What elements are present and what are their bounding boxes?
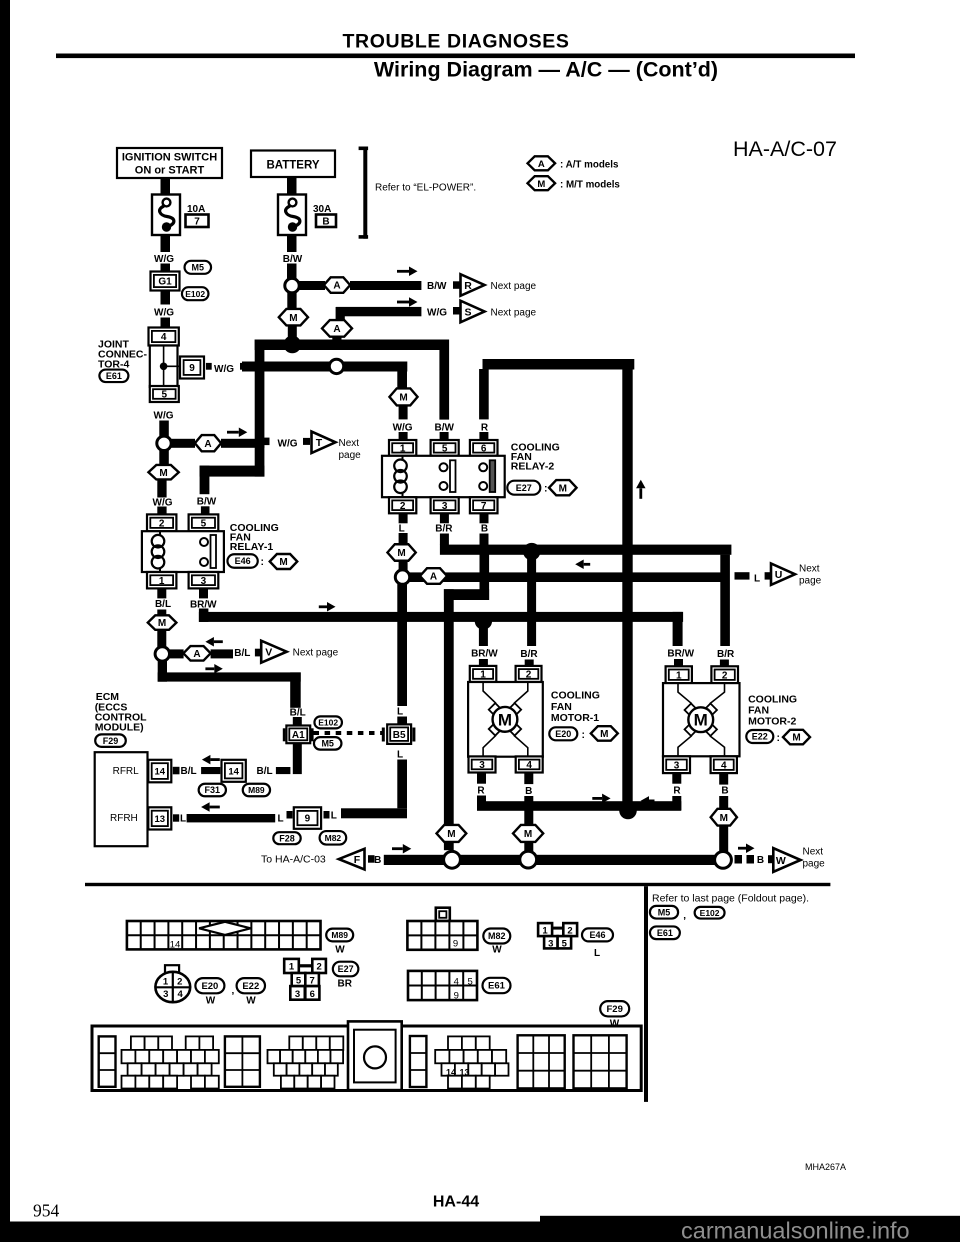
fuse number box B bbox=[316, 215, 336, 228]
svg-text::: : bbox=[777, 732, 781, 744]
arrow left RFRH bbox=[201, 802, 220, 812]
svg-text:,: , bbox=[683, 911, 686, 922]
svg-text:W/G: W/G bbox=[154, 254, 174, 265]
svg-text:4: 4 bbox=[721, 760, 727, 771]
connector B5 bbox=[382, 724, 416, 744]
text Next page (T) bbox=[339, 438, 362, 461]
dash square B/W R bbox=[453, 281, 460, 289]
wire B/R horizontal bbox=[440, 545, 732, 555]
svg-text:M5: M5 bbox=[658, 907, 671, 917]
wire2 horizontal bbox=[242, 362, 407, 372]
svg-text:,: , bbox=[232, 985, 235, 996]
svg-text:E22: E22 bbox=[242, 981, 259, 992]
dash square 9R bbox=[324, 811, 330, 819]
wire M hexagon to junction dot bbox=[288, 326, 297, 338]
svg-text:E20: E20 bbox=[201, 981, 218, 992]
label W/G to next page bbox=[278, 439, 298, 450]
joint connector label bbox=[98, 338, 148, 370]
label BR/W motor-1 bbox=[471, 649, 498, 660]
connector E20 oval bottom bbox=[195, 978, 224, 993]
wire G1 to W/G bbox=[161, 291, 171, 305]
label B/L mid bbox=[257, 766, 273, 777]
text Next page (R) bbox=[491, 281, 537, 292]
connector E20 drawing bbox=[155, 965, 190, 1002]
label B/W relay-1 pin5 bbox=[197, 497, 217, 508]
svg-text:9: 9 bbox=[453, 939, 458, 950]
svg-text:5: 5 bbox=[296, 976, 302, 987]
wire B long vertical bbox=[444, 589, 454, 850]
label B/L next page bbox=[234, 648, 250, 659]
L wire down from splice bbox=[397, 584, 407, 706]
svg-text:1: 1 bbox=[400, 444, 406, 455]
wire B/R to motor-2 pin2 bbox=[720, 555, 730, 646]
label W/G relay-2 pin1 bbox=[393, 422, 413, 433]
motor-1 name bbox=[551, 690, 600, 725]
corner wire to relay-1 pin5 bbox=[200, 466, 265, 495]
svg-text:3: 3 bbox=[163, 989, 168, 1000]
joint connector-4 body bbox=[150, 346, 180, 388]
svg-text:B: B bbox=[721, 785, 728, 796]
M/T hexagon relay-1 id bbox=[270, 554, 298, 569]
junction dot BR/W bbox=[475, 612, 492, 629]
svg-text:2: 2 bbox=[526, 670, 532, 681]
M/T hexagon motor-1 id bbox=[591, 726, 618, 741]
relay-2 pin 3 bbox=[431, 497, 459, 513]
svg-text:Next page: Next page bbox=[491, 307, 537, 318]
wire BR/W corner motor-2 bbox=[673, 612, 683, 646]
svg-text:carmanualsonline.info: carmanualsonline.info bbox=[681, 1218, 910, 1242]
label B next page W bbox=[757, 855, 764, 866]
dash square W/G T bbox=[262, 438, 270, 446]
svg-text:M82: M82 bbox=[488, 931, 506, 941]
svg-text:A: A bbox=[193, 649, 200, 660]
label L relay-2 pin2 bbox=[399, 523, 405, 534]
svg-text:B/L: B/L bbox=[155, 599, 171, 610]
legend A/T hexagon bbox=[528, 156, 556, 170]
label B motor-2 bbox=[721, 785, 728, 796]
connector 9 on L wire bbox=[294, 807, 321, 829]
label B motor-1 bbox=[525, 786, 532, 797]
motor-1 pin 3 bbox=[469, 756, 496, 772]
relay-1 pin 2 bbox=[147, 514, 176, 531]
connector F31 oval bbox=[199, 784, 226, 797]
svg-text:Next: Next bbox=[339, 438, 360, 449]
M/T hexagon motor-2 id bbox=[783, 730, 810, 745]
M/T hexagon B/L wire bbox=[148, 615, 177, 630]
connector F29 oval bottom bbox=[600, 1001, 629, 1016]
label L left of 9 bbox=[277, 814, 283, 825]
label W F29 bbox=[610, 1019, 620, 1030]
connector E102 oval A1 bbox=[314, 716, 342, 728]
label RFRL bbox=[113, 766, 140, 777]
svg-text:Wiring Diagram — A/C — (Cont’d: Wiring Diagram — A/C — (Cont’d) bbox=[374, 58, 718, 82]
svg-text:L: L bbox=[399, 523, 405, 534]
label W/G bbox=[154, 307, 174, 318]
svg-text:B/W: B/W bbox=[197, 497, 217, 508]
dash square pin14 bbox=[173, 767, 180, 775]
svg-text:B/L: B/L bbox=[257, 766, 273, 777]
motor-1 pin 4 bbox=[516, 756, 543, 772]
relay-2 coil bbox=[394, 456, 407, 497]
wire A hexagon to B/W label bbox=[350, 281, 421, 290]
svg-text:1: 1 bbox=[289, 962, 295, 973]
bottom black band bbox=[0, 1216, 960, 1242]
label RFRH bbox=[110, 813, 138, 824]
stub B motor-2 down bbox=[719, 796, 728, 810]
wire B/W to splice bbox=[287, 264, 297, 279]
svg-text:B/L: B/L bbox=[181, 766, 197, 777]
page number HA-44 bbox=[433, 1194, 479, 1211]
svg-text:E46: E46 bbox=[589, 930, 605, 940]
svg-text:M: M bbox=[447, 829, 455, 840]
relay-1 pin 5 bbox=[189, 514, 219, 531]
svg-text:: M/T models: : M/T models bbox=[560, 180, 620, 191]
connector E102 oval bbox=[182, 287, 209, 300]
W/G corner wire to S bbox=[336, 307, 422, 321]
next page triangle R bbox=[461, 274, 485, 296]
arrow right on W/G wire bbox=[227, 427, 247, 437]
label W/G bbox=[154, 254, 174, 265]
svg-text:7: 7 bbox=[194, 217, 200, 228]
svg-text:BR: BR bbox=[337, 979, 352, 990]
svg-text:E102: E102 bbox=[318, 718, 338, 728]
next page triangle S bbox=[461, 301, 485, 323]
svg-text:M89: M89 bbox=[248, 785, 265, 795]
label W E22 bbox=[246, 995, 256, 1006]
svg-text:Next: Next bbox=[803, 847, 824, 858]
motor-1 pin 2 bbox=[516, 666, 542, 682]
svg-text:BATTERY: BATTERY bbox=[266, 160, 319, 172]
next page triangle W bbox=[773, 848, 800, 872]
stub A hexagon to wire1 bbox=[332, 337, 341, 342]
connector G1 bbox=[151, 272, 180, 291]
label B/R relay-2 pin3 bbox=[435, 524, 453, 535]
motor-2 pin 3 bbox=[663, 756, 690, 773]
svg-text:B/L: B/L bbox=[290, 707, 306, 718]
fuse rating 10A bbox=[187, 204, 205, 215]
stub pin7 to B label bbox=[480, 513, 489, 523]
svg-text:1: 1 bbox=[159, 576, 165, 587]
connector 14 mid bbox=[222, 760, 246, 782]
svg-text:7: 7 bbox=[481, 501, 487, 512]
label W/G relay-1 pin2 bbox=[153, 497, 173, 508]
svg-text:M: M bbox=[792, 733, 800, 744]
svg-text:RELAY-1: RELAY-1 bbox=[230, 541, 274, 553]
svg-text:E22: E22 bbox=[752, 732, 768, 742]
connector E46 oval bottom bbox=[582, 928, 613, 941]
wire battery to fuse bbox=[287, 177, 297, 195]
svg-text:Refer to “EL-POWER”.: Refer to “EL-POWER”. bbox=[375, 182, 476, 193]
bottom rule bbox=[85, 883, 830, 886]
svg-text:3: 3 bbox=[479, 760, 485, 771]
ECM pin 13 bbox=[148, 807, 171, 829]
svg-text:L: L bbox=[180, 814, 186, 825]
wire fuse to W/G bbox=[161, 235, 171, 252]
svg-text:MHA267A: MHA267A bbox=[805, 1162, 846, 1172]
fuse 30A [B] bbox=[278, 195, 306, 236]
text Next page (S) bbox=[491, 307, 537, 318]
text Next page (W) bbox=[803, 847, 826, 870]
connector E46 drawing bbox=[538, 923, 577, 949]
relay-2 contact 6-7 bbox=[479, 460, 495, 492]
svg-text:L: L bbox=[331, 811, 337, 822]
svg-text:page: page bbox=[803, 859, 826, 870]
svg-text:2: 2 bbox=[567, 925, 572, 936]
svg-text:F: F bbox=[354, 854, 361, 866]
battery box bbox=[251, 151, 335, 178]
svg-text:W/G: W/G bbox=[214, 364, 234, 375]
label L above B5 bbox=[397, 707, 403, 718]
svg-text:Next: Next bbox=[799, 564, 820, 575]
stub B/R to motor-2 pin2 bbox=[720, 660, 729, 667]
label R motor-2 bbox=[673, 786, 681, 797]
svg-text:5: 5 bbox=[467, 976, 472, 987]
svg-text:1: 1 bbox=[163, 976, 169, 987]
svg-text:3: 3 bbox=[201, 576, 207, 587]
svg-text:7: 7 bbox=[309, 976, 314, 987]
dash square W/G S bbox=[453, 307, 460, 315]
label BR/W motor-2 bbox=[667, 649, 694, 660]
M/T hexagon B wire bbox=[437, 825, 467, 842]
comma E20 E22 bbox=[232, 985, 235, 996]
connector E102 oval bottom bbox=[695, 907, 725, 919]
svg-text:4: 4 bbox=[161, 332, 167, 343]
svg-text:M: M bbox=[559, 483, 567, 494]
svg-text:1: 1 bbox=[480, 670, 486, 681]
svg-text:5: 5 bbox=[162, 390, 168, 401]
svg-text:5: 5 bbox=[201, 518, 207, 529]
connector E27 oval bbox=[507, 481, 540, 495]
dash square W 3 bbox=[768, 855, 774, 863]
svg-text:W/G: W/G bbox=[393, 422, 413, 433]
wire splice to A hexagon bbox=[171, 439, 195, 448]
svg-text:Next page: Next page bbox=[293, 648, 339, 659]
stub pin3 to B/R label bbox=[440, 513, 449, 523]
joint connector-4 pin 9 bbox=[180, 357, 204, 379]
svg-text:U: U bbox=[775, 569, 783, 581]
label B/L above A1 bbox=[290, 707, 306, 718]
watermark carmanualsonline.info bbox=[681, 1218, 910, 1242]
stub R label to pin6 bbox=[479, 432, 488, 440]
svg-text:A: A bbox=[333, 281, 340, 292]
label B/R motor-2 bbox=[717, 649, 735, 660]
figure code MHA267A bbox=[805, 1162, 846, 1172]
wire B corner bbox=[444, 589, 489, 600]
svg-text:E102: E102 bbox=[700, 908, 720, 918]
wire B/L mid bbox=[276, 767, 291, 774]
label R motor-1 bbox=[477, 786, 485, 797]
svg-text:M: M bbox=[159, 468, 167, 479]
colon relay-2 bbox=[544, 483, 548, 495]
connector E61 drawing bbox=[408, 971, 477, 1002]
label B/W relay-2 pin5 bbox=[434, 422, 454, 433]
svg-text:B: B bbox=[374, 855, 381, 866]
fuse number box 7 bbox=[186, 215, 209, 228]
svg-text:9: 9 bbox=[454, 991, 459, 1002]
svg-text:E27: E27 bbox=[516, 483, 532, 493]
svg-text:M82: M82 bbox=[325, 833, 342, 843]
svg-text:L: L bbox=[397, 707, 403, 718]
wire1 down to relay-2 pin5 bbox=[439, 340, 449, 420]
subtitle Wiring Diagram bbox=[374, 58, 718, 82]
svg-text:W/G: W/G bbox=[278, 439, 298, 450]
label L next page bbox=[754, 573, 760, 584]
svg-text:RELAY-2: RELAY-2 bbox=[511, 461, 555, 473]
stub relay-1 pin3 down bbox=[199, 588, 208, 598]
dash square W 1 bbox=[735, 855, 743, 864]
svg-text:B/R: B/R bbox=[435, 524, 453, 535]
relay-2 pin 1 bbox=[389, 440, 416, 456]
svg-text:E20: E20 bbox=[555, 729, 571, 739]
connector E20 oval bbox=[549, 727, 577, 740]
svg-text:HA-44: HA-44 bbox=[433, 1194, 479, 1211]
page code HA-A/C-07 bbox=[733, 137, 837, 161]
relay-1 contact 5-3 bbox=[200, 535, 216, 568]
title TROUBLE DIAGNOSES bbox=[343, 31, 570, 53]
wire R motor-1 corner bbox=[477, 796, 628, 811]
svg-text:To HA-A/C-03: To HA-A/C-03 bbox=[261, 854, 326, 866]
legend M/T text bbox=[560, 180, 620, 191]
svg-text:14: 14 bbox=[446, 1068, 456, 1078]
connector E22 oval bbox=[746, 730, 773, 743]
wire W/G to splice circle bbox=[159, 421, 169, 437]
svg-text:2: 2 bbox=[722, 670, 728, 681]
splice circle B/L bbox=[155, 647, 169, 661]
svg-text:M: M bbox=[600, 729, 608, 740]
splice circle battery bbox=[285, 278, 299, 292]
M/T hexagon relay-2 id bbox=[549, 480, 577, 495]
arrow left B/L pin14 bbox=[202, 755, 220, 765]
next page triangle V bbox=[261, 641, 287, 663]
colon motor-2 bbox=[777, 732, 781, 744]
arrow up on R vertical bbox=[636, 480, 646, 499]
ECM name bbox=[95, 691, 147, 734]
legend A/T text bbox=[560, 160, 619, 171]
arrow left at R dot bbox=[641, 796, 655, 806]
stub B/L down bbox=[157, 610, 166, 617]
wire B/L splice down bbox=[158, 661, 167, 682]
svg-text:3: 3 bbox=[674, 760, 680, 771]
wire W/G to G1 bbox=[161, 264, 171, 272]
wire A hexagon to crossing bbox=[221, 439, 264, 448]
svg-text:R: R bbox=[673, 786, 681, 797]
svg-text:A: A bbox=[538, 159, 545, 170]
motor-2 pin 4 bbox=[711, 756, 737, 773]
wire fuse to B/W bbox=[287, 235, 297, 252]
stub B label down bbox=[480, 534, 489, 547]
relay-1 coil bbox=[152, 531, 165, 572]
wireR stub to R label bbox=[479, 369, 489, 419]
connector M89 drawing bbox=[127, 921, 321, 951]
svg-text:9: 9 bbox=[305, 814, 311, 825]
label B at F bbox=[374, 855, 381, 866]
svg-text:954: 954 bbox=[33, 1201, 60, 1221]
svg-text:M: M bbox=[524, 829, 532, 840]
wire splice to A hexagon batt bbox=[299, 281, 325, 290]
svg-text:M5: M5 bbox=[321, 739, 334, 749]
comma bottom bbox=[683, 911, 686, 922]
stub W/G label to pin1 bbox=[399, 432, 408, 440]
svg-text:F28: F28 bbox=[279, 833, 295, 843]
dash square F bbox=[368, 855, 375, 863]
page number 954 bbox=[33, 1201, 60, 1221]
dash square W 2 bbox=[747, 855, 755, 864]
legend M/T hexagon bbox=[528, 176, 556, 190]
svg-text:E61: E61 bbox=[657, 928, 673, 938]
text refer to last page bbox=[652, 893, 809, 905]
svg-text:14: 14 bbox=[155, 767, 166, 778]
M/T hexagon L wire bbox=[387, 544, 415, 561]
wire RFRH bbox=[187, 814, 276, 822]
L wire right bbox=[409, 572, 723, 582]
svg-text:W/G: W/G bbox=[427, 307, 447, 318]
arrow right W bbox=[738, 843, 755, 853]
M/T hexagon B motor-2 bbox=[711, 809, 737, 826]
svg-text:L: L bbox=[754, 573, 760, 584]
wire B vertical bbox=[480, 546, 490, 600]
wireR vertical right side bbox=[622, 359, 632, 806]
wire B/L pin14 bbox=[201, 767, 220, 774]
svg-text::: : bbox=[261, 556, 265, 568]
label B relay-2 pin7 bbox=[481, 524, 488, 535]
wire2 corner down bbox=[397, 362, 407, 389]
svg-text:page: page bbox=[339, 450, 362, 461]
svg-text:IGNITION SWITCH: IGNITION SWITCH bbox=[122, 152, 217, 164]
A/T hexagon on W/G wire bbox=[195, 435, 221, 451]
A/T hexagon B/L wire bbox=[183, 646, 210, 661]
label B/R motor-1 bbox=[520, 649, 538, 660]
bottom B wire bbox=[384, 855, 715, 865]
label BR/W relay-1 pin3 bbox=[190, 599, 217, 610]
motor-2 pin 1 bbox=[666, 666, 692, 683]
splice circle B motor-1 bbox=[520, 851, 537, 868]
connector M89 oval bottom bbox=[326, 929, 353, 942]
text refer to EL-POWER bbox=[375, 182, 476, 193]
splice circle B motor-2 bbox=[715, 852, 732, 869]
svg-text:B/W: B/W bbox=[427, 281, 447, 292]
motor-2 pin 2 bbox=[711, 666, 738, 683]
svg-text:5: 5 bbox=[562, 938, 568, 949]
wire B5 down bbox=[397, 760, 407, 809]
label W E20 bbox=[206, 995, 216, 1006]
svg-text:E61: E61 bbox=[106, 371, 122, 381]
svg-text:A1: A1 bbox=[292, 730, 305, 741]
text To HA-A/C-03 bbox=[261, 854, 326, 866]
connector E61 oval bbox=[99, 370, 128, 383]
svg-text:B: B bbox=[481, 524, 488, 535]
wire B/L down to A1 bbox=[290, 672, 301, 707]
stub B motor-1 to splice bbox=[524, 842, 533, 852]
svg-text:13: 13 bbox=[459, 1068, 469, 1078]
connector E61 oval bottom bbox=[650, 926, 680, 939]
svg-text:4: 4 bbox=[526, 760, 532, 771]
relay-2 pin 7 bbox=[470, 497, 498, 513]
arrow right W/G S bbox=[397, 297, 418, 307]
svg-text::: : bbox=[544, 483, 548, 495]
connector E27 drawing bbox=[284, 959, 326, 1000]
svg-text:R: R bbox=[481, 422, 489, 433]
fuse rating 30A bbox=[313, 204, 331, 215]
arrow right B/W bbox=[397, 267, 418, 277]
svg-text:E102: E102 bbox=[185, 289, 205, 299]
label B/W bbox=[283, 254, 303, 265]
svg-text:L: L bbox=[594, 948, 600, 959]
relay-2 body bbox=[382, 456, 505, 497]
svg-text:RFRL: RFRL bbox=[113, 766, 140, 777]
label W/G bbox=[154, 411, 174, 422]
joint connector-4 pin 5 bbox=[150, 386, 179, 402]
wire motor-1 B down bbox=[524, 772, 533, 784]
